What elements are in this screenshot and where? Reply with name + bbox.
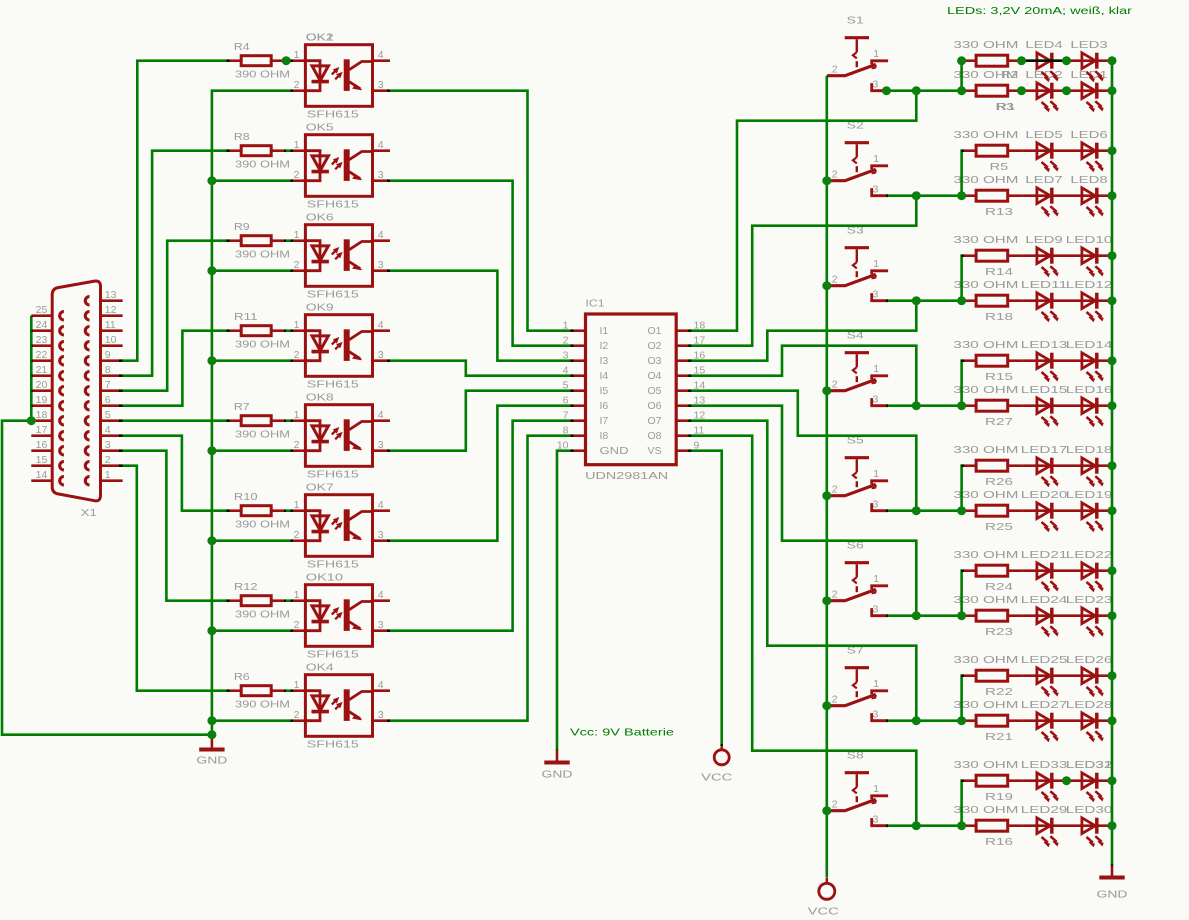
wire duplicate net overlap group1 (black) (1023, 59, 1067, 62)
svg-text:SFH615: SFH615 (307, 739, 359, 751)
svg-text:3: 3 (873, 709, 879, 721)
wire S6 pin3 to resistors (886, 614, 961, 617)
svg-text:21: 21 (36, 364, 48, 376)
svg-text:1: 1 (105, 469, 111, 481)
svg-text:1: 1 (294, 49, 300, 61)
svg-text:2: 2 (294, 529, 300, 541)
svg-text:R25: R25 (985, 521, 1013, 533)
svg-text:LED15: LED15 (1021, 384, 1068, 396)
svg-text:SFH615: SFH615 (307, 649, 359, 661)
wire red LED row y=405.7 (1023, 404, 1114, 407)
svg-text:1: 1 (294, 139, 300, 151)
svg-text:UDN2981AN: UDN2981AN (585, 470, 668, 482)
svg-text:Vcc: 9V Batterie: Vcc: 9V Batterie (570, 726, 674, 738)
wire R out to opto pin1 y=330.7 (284, 329, 293, 332)
svg-text:R18: R18 (985, 311, 1013, 323)
svg-text:330 OHM: 330 OHM (953, 594, 1018, 606)
resistor R9 390 OHM (226, 239, 241, 242)
LED LED32 (1082, 773, 1095, 789)
svg-text:3: 3 (378, 619, 384, 631)
svg-text:I7: I7 (600, 415, 609, 427)
svg-text:I8: I8 (600, 430, 609, 442)
wire X1 pin2 to R6 (119, 466, 230, 691)
svg-text:3: 3 (378, 169, 384, 181)
svg-text:LED25: LED25 (1021, 654, 1068, 666)
LED LED7 (1037, 188, 1050, 204)
wire red LED row y=675.7 (1023, 674, 1114, 677)
svg-text:3: 3 (873, 289, 879, 301)
resistor 330 OHM row y=90.7 (961, 89, 976, 92)
svg-text:3: 3 (378, 439, 384, 451)
svg-text:LEDs: 3,2V 20mA; weiß, klar: LEDs: 3,2V 20mA; weiß, klar (947, 5, 1133, 17)
resistor 330 OHM row y=360.7 (961, 359, 976, 362)
svg-text:R4: R4 (234, 41, 250, 53)
wire red LED row y=780.7 (1023, 779, 1114, 782)
LED LED8 (1082, 188, 1095, 204)
wire IC1 O3 to group 3 (688, 301, 916, 361)
svg-text:4: 4 (378, 229, 384, 241)
wire X1 pin3 to R12 (119, 451, 230, 601)
optocoupler OK7 (SFH615) (290, 495, 390, 557)
resistor 330 OHM row y=465.7 (961, 464, 976, 467)
wire group 1 row link (962, 61, 964, 91)
svg-text:1: 1 (873, 48, 879, 60)
wire red LED row y=255.7 (1023, 254, 1114, 257)
svg-text:19: 19 (36, 394, 48, 406)
resistor 330 OHM row y=825.7 (961, 824, 976, 827)
svg-text:GND: GND (600, 445, 630, 457)
connector X1 left pins 14-25 (31, 314, 52, 317)
svg-text:4: 4 (378, 139, 384, 151)
svg-text:LED33: LED33 (1021, 759, 1068, 771)
svg-text:330 OHM: 330 OHM (953, 759, 1018, 771)
svg-text:2: 2 (294, 79, 300, 91)
wire X1 pin5 to R7 (119, 419, 230, 422)
optocoupler OK4 (SFH615) (290, 675, 390, 737)
svg-text:R6: R6 (234, 671, 250, 683)
svg-text:8: 8 (105, 364, 111, 376)
svg-text:1: 1 (873, 258, 879, 270)
LED LED10 (1082, 248, 1095, 264)
svg-text:13: 13 (105, 289, 117, 301)
svg-text:LED31: LED31 (1066, 759, 1113, 771)
svg-text:4: 4 (378, 679, 384, 691)
svg-text:I1: I1 (600, 325, 609, 337)
wire GND bus to optocoupler pin2 row 270.7 (212, 269, 293, 272)
svg-text:2: 2 (294, 169, 300, 181)
optocoupler OK2 (SFH615) (290, 45, 390, 107)
wire X1 pin8 to R8 (119, 151, 230, 376)
svg-text:15: 15 (36, 454, 48, 466)
svg-text:LED10: LED10 (1066, 234, 1113, 246)
svg-text:LED9: LED9 (1025, 234, 1062, 246)
wire red LED row y=570.7 (1023, 569, 1114, 572)
wire GND bus to optocoupler pin2 row 180.7 (212, 179, 293, 182)
LED LED21 (1037, 563, 1050, 579)
LED LED29 (1037, 818, 1050, 834)
wire X1 pin7 to R9 (119, 241, 230, 391)
svg-text:LED28: LED28 (1066, 699, 1113, 711)
switch S1 (827, 38, 888, 91)
svg-text:390 OHM: 390 OHM (235, 158, 290, 170)
svg-text:3: 3 (873, 184, 879, 196)
wire S8 pin3 to resistors (886, 824, 961, 827)
wire IC1 O6 to group 6 (688, 406, 916, 616)
svg-text:LED8: LED8 (1070, 174, 1107, 186)
svg-text:22: 22 (36, 349, 48, 361)
svg-text:O7: O7 (647, 415, 661, 427)
resistor R11 390 OHM (226, 329, 241, 332)
resistor 330 OHM row y=150.7 (961, 149, 976, 152)
resistor 330 OHM row y=60.7 (961, 59, 976, 62)
svg-text:OK8: OK8 (306, 391, 334, 403)
svg-text:O5: O5 (647, 385, 661, 397)
wire IC1 O8 to group 8 (688, 436, 916, 826)
LED LED15 (1037, 398, 1050, 414)
wire IC1 GND to ground (557, 451, 574, 750)
svg-text:LED18: LED18 (1066, 444, 1113, 456)
LED LED1 (1082, 83, 1095, 99)
svg-text:390 OHM: 390 OHM (235, 698, 290, 710)
svg-text:LED14: LED14 (1066, 339, 1113, 351)
wire R out to opto pin1 y=600.7 (284, 599, 293, 602)
wire GND bus to optocoupler pin2 row 720.7 (212, 719, 293, 722)
svg-text:1: 1 (294, 229, 300, 241)
wire X1 ground pins bus (30, 316, 33, 421)
LED LED22 (1082, 563, 1095, 579)
optocoupler OK10 (SFH615) (290, 585, 390, 647)
wire OK2 pin3 to IC1 I1 (387, 91, 574, 331)
resistor R4 390 OHM (226, 59, 241, 62)
wire IC1 VS to VCC (688, 451, 722, 746)
LED LED18 (1082, 458, 1095, 474)
svg-text:5: 5 (105, 409, 111, 421)
svg-text:R11: R11 (234, 311, 258, 323)
wire group 2 row link (962, 151, 964, 196)
svg-text:1: 1 (294, 319, 300, 331)
svg-text:R9: R9 (234, 221, 250, 233)
wire R out to opto pin1 y=690.7 (284, 689, 293, 692)
svg-text:LED16: LED16 (1066, 384, 1113, 396)
LED LED16 (1082, 398, 1095, 414)
wire red LED row y=150.7 (1023, 149, 1114, 152)
LED LED3 (1082, 53, 1095, 69)
svg-text:X1: X1 (81, 507, 97, 519)
svg-text:LED22: LED22 (1066, 549, 1113, 561)
wire OK10 pin3 to IC1 I7 (387, 421, 574, 631)
svg-text:330 OHM: 330 OHM (953, 129, 1018, 141)
connector X1 (DB25) outline (52, 281, 100, 501)
svg-text:R5: R5 (990, 161, 1009, 173)
LED LED4 (1037, 53, 1050, 69)
svg-text:SFH615: SFH615 (307, 199, 359, 211)
svg-text:2: 2 (832, 169, 838, 181)
wire OK9 pin3 to IC1 I4 (387, 361, 574, 376)
svg-text:4: 4 (378, 409, 384, 421)
svg-text:330 OHM: 330 OHM (953, 804, 1018, 816)
wire group 8 row link (962, 781, 964, 826)
svg-text:4: 4 (378, 499, 384, 511)
svg-text:OK5: OK5 (306, 121, 334, 133)
svg-text:LED23: LED23 (1066, 594, 1113, 606)
LED LED6 (1082, 143, 1095, 159)
svg-text:390 OHM: 390 OHM (235, 428, 290, 440)
wire S7 pin3 to resistors (886, 719, 961, 722)
svg-text:R14: R14 (985, 266, 1013, 278)
svg-text:1: 1 (873, 573, 879, 585)
wire R out to opto pin1 y=150.7 (284, 149, 293, 152)
svg-text:1: 1 (294, 409, 300, 421)
svg-text:LED11: LED11 (1021, 279, 1068, 291)
wire R out to opto pin1 y=240.7 (284, 239, 293, 242)
svg-text:3: 3 (378, 349, 384, 361)
svg-text:LED19: LED19 (1066, 489, 1113, 501)
svg-text:R19: R19 (985, 791, 1013, 803)
svg-text:OK9: OK9 (306, 301, 334, 313)
wire X1 pin9 to R4 (119, 61, 230, 361)
svg-text:I4: I4 (600, 370, 609, 382)
svg-text:3: 3 (873, 604, 879, 616)
svg-text:LED5: LED5 (1025, 129, 1062, 141)
svg-text:4: 4 (105, 424, 111, 436)
svg-text:R22: R22 (985, 686, 1013, 698)
LED LED23 (1082, 608, 1095, 624)
wire S1 pin3 to resistors (886, 89, 961, 92)
svg-text:S1: S1 (847, 15, 864, 27)
svg-text:O3: O3 (647, 355, 661, 367)
wire GND bus to optocoupler pin2 row 450.7 (212, 449, 293, 452)
svg-text:I2: I2 (600, 340, 609, 352)
LED LED33 (1037, 773, 1050, 789)
resistor R12 390 OHM (226, 599, 241, 602)
svg-text:330 OHM: 330 OHM (953, 384, 1018, 396)
switch S8 (827, 773, 888, 826)
svg-text:SFH615: SFH615 (307, 469, 359, 481)
switch S5 (827, 458, 888, 511)
connector X1 right pins 1-13 (101, 299, 123, 302)
svg-text:12: 12 (105, 304, 117, 316)
svg-text:GND: GND (1097, 889, 1129, 901)
svg-text:SFH615: SFH615 (307, 379, 359, 391)
resistor 330 OHM row y=675.7 (961, 674, 976, 677)
svg-text:2: 2 (105, 454, 111, 466)
wire red LED row y=360.7 (1023, 359, 1114, 362)
svg-text:R26: R26 (985, 476, 1013, 488)
svg-text:2: 2 (832, 379, 838, 391)
svg-text:R27: R27 (985, 416, 1013, 428)
svg-text:LED6: LED6 (1070, 129, 1107, 141)
svg-text:3: 3 (873, 394, 879, 406)
wire X1 pin4 to R10 (119, 436, 230, 511)
wire IC1 O1 to group 1 (688, 91, 916, 331)
LED LED24 (1037, 608, 1050, 624)
svg-text:2: 2 (832, 799, 838, 811)
svg-text:2: 2 (294, 259, 300, 271)
resistor R6 390 OHM (226, 689, 241, 692)
LED LED19 (1082, 503, 1095, 519)
svg-text:3: 3 (378, 529, 384, 541)
VCC symbol VCC middle (714, 744, 729, 765)
wire OK5 pin3 to IC1 I2 (387, 181, 574, 346)
svg-text:I6: I6 (600, 400, 609, 412)
svg-text:LED4: LED4 (1025, 39, 1062, 51)
wire VCC bus vertical (825, 76, 828, 877)
svg-text:3: 3 (105, 439, 111, 451)
svg-text:2: 2 (294, 619, 300, 631)
junction dot R4 output (282, 56, 291, 65)
svg-text:R12: R12 (234, 581, 258, 593)
ground symbol GND left (199, 737, 224, 750)
svg-text:R8: R8 (234, 131, 250, 143)
svg-text:R13: R13 (985, 206, 1013, 218)
svg-text:2: 2 (294, 349, 300, 361)
svg-text:LED30: LED30 (1066, 804, 1113, 816)
LED LED26 (1082, 668, 1095, 684)
svg-text:330 OHM: 330 OHM (953, 549, 1018, 561)
svg-text:4: 4 (378, 49, 384, 61)
wire OK7 pin3 to IC1 I6 (387, 406, 574, 541)
svg-text:I5: I5 (600, 385, 609, 397)
svg-text:O8: O8 (647, 430, 661, 442)
optocoupler OK8 (SFH615) (290, 405, 390, 467)
LED LED9 (1037, 248, 1050, 264)
wire S2 pin3 to resistors (886, 194, 961, 197)
svg-text:VCC: VCC (808, 906, 840, 918)
optocoupler OK5 (SFH615) (290, 135, 390, 197)
svg-text:R21: R21 (985, 731, 1013, 743)
LED LED12 (1082, 293, 1095, 309)
svg-text:330 OHM: 330 OHM (953, 444, 1018, 456)
svg-text:330 OHM: 330 OHM (953, 279, 1018, 291)
svg-text:R10: R10 (234, 491, 258, 503)
wire X1 pin6 to R11 (119, 331, 230, 406)
resistor 330 OHM row y=405.7 (961, 404, 976, 407)
optocoupler OK9 (SFH615) (290, 315, 390, 377)
svg-text:330 OHM: 330 OHM (953, 654, 1018, 666)
wire red LED row y=510.7 (1023, 509, 1114, 512)
LED LED2 (1037, 83, 1050, 99)
svg-text:390 OHM: 390 OHM (235, 518, 290, 530)
resistor R10 390 OHM (226, 509, 241, 512)
svg-text:GND: GND (196, 755, 228, 767)
junction dots duplicate nets group1 (957, 56, 966, 65)
svg-text:330 OHM: 330 OHM (953, 234, 1018, 246)
VCC symbol VCC bottom (819, 877, 835, 899)
LED LED27 (1037, 713, 1050, 729)
svg-text:O1: O1 (647, 325, 661, 337)
svg-text:18: 18 (36, 409, 48, 421)
wire X1 ground to left edge and GND (2, 421, 212, 735)
junction dots GND bus (207, 176, 216, 185)
svg-text:9: 9 (105, 349, 111, 361)
wire OK4 pin3 to IC1 I8 (387, 436, 574, 721)
LED LED11 (1037, 293, 1050, 309)
ground symbol GND middle (544, 750, 569, 763)
svg-text:6: 6 (105, 394, 111, 406)
wire red LED row y=465.7 (1023, 464, 1114, 467)
svg-text:3: 3 (873, 814, 879, 826)
svg-text:IC1: IC1 (586, 298, 605, 310)
wire IC1 O4 to group 4 (688, 346, 916, 406)
resistor R8 390 OHM (226, 149, 241, 152)
svg-text:7: 7 (105, 379, 111, 391)
svg-text:LED3: LED3 (1070, 39, 1107, 51)
svg-text:LED29: LED29 (1021, 804, 1068, 816)
IC U1 IC1 UDN2981AN (570, 314, 691, 465)
wire S5 pin3 to resistors (886, 509, 961, 512)
svg-text:1: 1 (294, 499, 300, 511)
wire red LED row y=60.7 (1023, 59, 1114, 62)
svg-text:1: 1 (873, 783, 879, 795)
wire GND bus to optocoupler pin2 row 540.7 (212, 539, 293, 542)
svg-text:1: 1 (873, 678, 879, 690)
svg-text:11: 11 (105, 319, 116, 331)
switch S2 (827, 143, 888, 196)
svg-text:OK6: OK6 (306, 211, 334, 223)
svg-text:390 OHM: 390 OHM (235, 248, 290, 260)
svg-text:2: 2 (832, 484, 838, 496)
svg-text:R16: R16 (985, 836, 1013, 848)
svg-text:OK7: OK7 (306, 481, 334, 493)
svg-text:17: 17 (36, 424, 48, 436)
wire IC1 O2 to group 2 (688, 196, 916, 346)
svg-text:330 OHM: 330 OHM (953, 39, 1018, 51)
svg-text:390 OHM: 390 OHM (235, 68, 290, 80)
LED LED30 (1082, 818, 1095, 834)
junction dot duplicate LEDs group8 (1062, 776, 1071, 785)
LED LED14 (1082, 353, 1095, 369)
wire S4 pin3 to resistors (886, 404, 961, 407)
resistor 330 OHM row y=300.7 (961, 299, 976, 302)
switch S3 (827, 248, 888, 301)
svg-text:2: 2 (294, 709, 300, 721)
LED LED5 (1037, 143, 1050, 159)
svg-text:14: 14 (36, 469, 48, 481)
svg-text:2: 2 (832, 589, 838, 601)
wire red LED row y=195.7 (1023, 194, 1114, 197)
resistor 330 OHM row y=255.7 (961, 254, 976, 257)
svg-text:SFH615: SFH615 (307, 109, 359, 121)
svg-text:R15: R15 (985, 371, 1013, 383)
LED LED28 (1082, 713, 1095, 729)
resistor R7 390 OHM (226, 419, 241, 422)
wire group 5 row link (962, 466, 964, 511)
svg-text:25: 25 (36, 304, 48, 316)
svg-text:VS: VS (647, 445, 661, 457)
wire group 4 row link (962, 361, 964, 406)
junction dot X1 ground net (27, 416, 36, 425)
junction dots group feeders (912, 86, 921, 95)
svg-text:23: 23 (36, 334, 48, 346)
svg-text:20: 20 (36, 379, 48, 391)
resistor 330 OHM row y=615.7 (961, 614, 976, 617)
svg-text:LED12: LED12 (1066, 279, 1113, 291)
svg-text:3: 3 (378, 79, 384, 91)
wire group 7 row link (962, 676, 964, 721)
svg-text:4: 4 (378, 319, 384, 331)
optocoupler OK6 (SFH615) (290, 225, 390, 287)
resistor 330 OHM row y=720.7 (961, 719, 976, 722)
wire R out to opto pin1 y=60.7 (284, 59, 293, 62)
svg-text:R7: R7 (234, 401, 250, 413)
wire right LED bus (1111, 61, 1114, 866)
svg-text:1: 1 (873, 153, 879, 165)
svg-text:LED24: LED24 (1021, 594, 1068, 606)
wire red LED row y=825.7 (1023, 824, 1114, 827)
svg-text:3: 3 (378, 259, 384, 271)
resistor 330 OHM row y=195.7 (961, 194, 976, 197)
junction dots right LED bus (1108, 56, 1117, 65)
